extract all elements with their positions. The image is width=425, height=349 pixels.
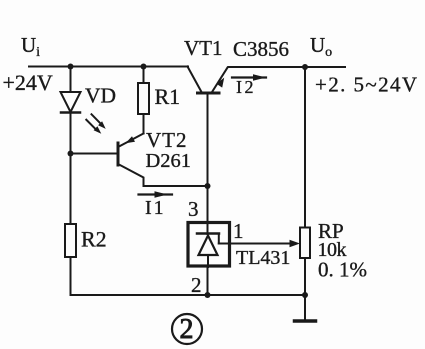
svg-text:I1: I1 xyxy=(145,197,166,219)
node VT1 base / VT2 collector / TL431 cathode xyxy=(205,183,211,189)
node output/RP junction xyxy=(302,64,308,70)
svg-text:R1: R1 xyxy=(155,84,181,109)
wire TL431 anode to bottom rail xyxy=(207,267,209,295)
node input/R1 junction xyxy=(141,64,147,70)
current arrow I1 xyxy=(139,191,173,198)
wire left column node to R2 xyxy=(70,154,72,225)
LED VD xyxy=(61,67,106,154)
current arrow I2 xyxy=(232,74,266,81)
svg-text:TL431: TL431 xyxy=(236,247,290,269)
shunt regulator TL431 xyxy=(188,222,230,267)
svg-text:+2. 5~24V: +2. 5~24V xyxy=(315,73,418,97)
node A (VD/R2/VT2 base) xyxy=(68,151,74,157)
transistor VT1 xyxy=(188,67,228,222)
svg-text:3: 3 xyxy=(188,197,199,221)
resistor R2 xyxy=(65,224,76,257)
svg-text:2: 2 xyxy=(180,314,194,345)
node RP / ground junction xyxy=(302,292,308,298)
ground xyxy=(295,295,316,321)
svg-text:D261: D261 xyxy=(146,150,192,172)
svg-text:VD: VD xyxy=(85,84,116,108)
svg-text:+24V: +24V xyxy=(3,70,53,95)
svg-text:0. 1%: 0. 1% xyxy=(318,258,367,282)
potentiometer RP xyxy=(300,228,310,259)
svg-text:1: 1 xyxy=(233,219,244,243)
node input/VD junction xyxy=(68,64,74,70)
wire output down to RP xyxy=(304,67,306,228)
pin 1 wire with arrow to RP wiper xyxy=(219,240,300,248)
wire output rail xyxy=(229,66,346,68)
wire bottom rail xyxy=(71,294,306,296)
wire R2 to bottom rail xyxy=(70,257,72,295)
wire RP to bottom rail xyxy=(304,258,306,295)
figure number 2 xyxy=(172,314,202,345)
svg-text:R2: R2 xyxy=(81,227,107,252)
svg-text:2: 2 xyxy=(191,273,202,297)
svg-text:VT2: VT2 xyxy=(146,128,188,152)
svg-text:VT1: VT1 xyxy=(184,36,223,60)
node TL431 anode / bottom rail xyxy=(205,292,211,298)
svg-text:I2: I2 xyxy=(236,77,256,97)
svg-text:C3856: C3856 xyxy=(233,37,289,61)
wire input rail xyxy=(29,66,188,68)
resistor R1 xyxy=(138,67,149,134)
transistor VT2 xyxy=(71,134,208,187)
